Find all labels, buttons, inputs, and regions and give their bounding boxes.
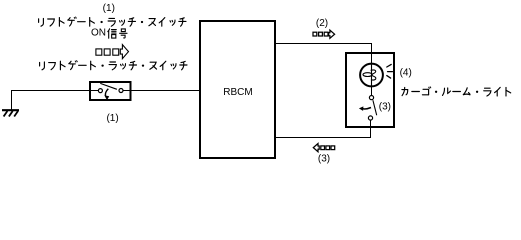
signal-flow arrow icon (2) output, small right	[313, 30, 335, 38]
wire lamp to door switch	[371, 86, 373, 95]
svg-text:(1): (1)	[106, 113, 118, 124]
lamp light rays	[387, 64, 393, 78]
svg-text:(4): (4)	[400, 67, 412, 78]
wire ground to switch S1	[12, 91, 90, 111]
signal-flow arrow icon (3) return, small left	[313, 144, 334, 152]
switch S1 actuation arrow	[104, 89, 109, 101]
svg-text:(3): (3)	[318, 153, 330, 164]
RBCM module U1 box	[200, 21, 275, 158]
svg-text:ON: ON	[91, 28, 106, 39]
text: liftgate latch switch ON-signal caption line 1	[39, 17, 186, 26]
wire stub box top to lamp	[371, 53, 373, 64]
text: cargo room light label	[402, 87, 511, 96]
text: liftgate latch switch label line	[40, 61, 187, 70]
text: ON signal line	[91, 28, 127, 39]
lamp L1 (bulb)	[360, 64, 383, 87]
cargo room light assembly box	[346, 53, 394, 127]
signal-flow arrow icon (input, large)	[96, 45, 129, 59]
svg-text:(3): (3)	[379, 101, 391, 112]
svg-text:(1): (1)	[103, 3, 115, 14]
door switch S2 contacts and blade	[368, 96, 376, 121]
ground	[2, 110, 19, 116]
wire S1 to RBCM	[131, 90, 200, 92]
door switch S2 actuation arrow	[359, 106, 371, 111]
wire door switch to box bottom	[370, 120, 372, 127]
wire RBCM to lamp box (top feed)	[275, 44, 372, 54]
svg-text:RBCM: RBCM	[223, 87, 252, 98]
switch S1 box (liftgate latch switch)	[90, 82, 131, 100]
wire stubs inside S1	[90, 90, 131, 92]
wire lamp box to RBCM (bottom return)	[275, 127, 371, 138]
switch S1 contacts and blade	[98, 83, 123, 92]
svg-text:(2): (2)	[316, 18, 328, 29]
